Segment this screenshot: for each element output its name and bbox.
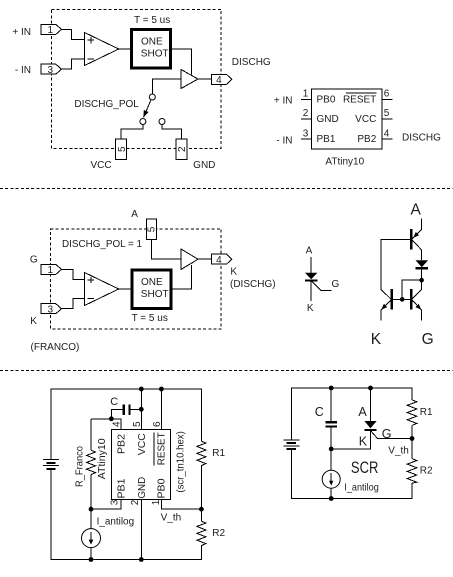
transistor Q3 base bar	[410, 289, 412, 309]
wire pin1 to comparator	[62, 29, 85, 39]
buffer U6	[181, 249, 198, 270]
svg-text:(scr_tn10.hex): (scr_tn10.hex)	[175, 431, 186, 492]
svg-text:4: 4	[384, 128, 390, 139]
wire switch to pin2	[162, 125, 182, 140]
svg-text:3: 3	[48, 65, 54, 76]
wire top rail (bottom-left circuit)	[51, 389, 201, 459]
diode D1	[416, 260, 429, 267]
svg-text:SHOT: SHOT	[141, 289, 169, 300]
svg-text:PB0: PB0	[317, 94, 336, 105]
svg-text:(DISCHG): (DISCHG)	[230, 279, 276, 290]
dashed block boundary (middle circuit)	[51, 229, 222, 329]
transistor Q2 emitter	[381, 300, 391, 320]
wire Q1 base to Q2 collector	[381, 239, 410, 289]
one-shot block U2	[132, 30, 171, 68]
wire Q1 collector to diode	[412, 240, 421, 260]
pin 3	[41, 64, 62, 74]
wire diode to Q3 collector	[421, 269, 423, 290]
wire C left	[111, 409, 122, 419]
node junction dot	[419, 278, 424, 283]
wire pin3 to comparator	[62, 59, 85, 69]
svg-text:ATtiny10: ATtiny10	[97, 438, 108, 479]
resistor R1	[407, 400, 417, 426]
svg-text:VCC: VCC	[137, 433, 148, 455]
buffer U3	[181, 70, 198, 89]
svg-text:K: K	[307, 303, 314, 314]
wire gate	[311, 281, 331, 290]
SCR thyristor symbol	[305, 273, 317, 280]
svg-text:1: 1	[48, 265, 54, 276]
svg-text:T = 5 us: T = 5 us	[132, 313, 168, 324]
wire cathode	[310, 282, 312, 301]
wire one-shot to buffer	[171, 265, 192, 289]
svg-text:G: G	[332, 279, 340, 290]
wire pin 3	[91, 499, 121, 509]
svg-text:V_th: V_th	[161, 512, 182, 523]
pin 3 stub	[301, 138, 312, 140]
wire RESET pin 6 from rail	[160, 389, 162, 430]
svg-text:DISCHG: DISCHG	[232, 57, 271, 68]
svg-text:C: C	[110, 396, 118, 408]
svg-text:K: K	[371, 331, 382, 348]
svg-text:K: K	[230, 267, 237, 278]
SCR thyristor	[370, 388, 372, 421]
svg-text:2: 2	[303, 108, 309, 119]
transistor Q1 emitter arrow (PNP)	[413, 232, 419, 238]
svg-text:DISCHG_POL = 1: DISCHG_POL = 1	[62, 239, 142, 250]
resistor R2	[197, 521, 206, 545]
dashed block boundary (top circuit)	[52, 9, 222, 148]
transistor Q2 collector	[381, 289, 391, 299]
transistor Q2 base bar	[391, 289, 393, 309]
svg-text:T = 5 us: T = 5 us	[134, 15, 170, 26]
svg-text:SCR: SCR	[351, 459, 379, 477]
battery V2	[283, 439, 299, 441]
svg-text:A: A	[411, 201, 422, 218]
svg-text:6: 6	[384, 89, 390, 100]
pin 4	[211, 74, 232, 84]
wire one-shot to buffer	[172, 49, 192, 75]
pin 3	[41, 304, 62, 314]
wire buffer input from switch	[152, 79, 181, 94]
node dots on top rail	[329, 386, 334, 391]
wire buffer to pin4	[198, 78, 211, 80]
op-amp comparator U1	[85, 33, 119, 66]
wire buffer to pin4	[198, 258, 211, 260]
wire pin1 to comparator	[62, 269, 85, 279]
svg-text:PB0: PB0	[157, 478, 168, 498]
wire bottom rail (bottom-right circuit)	[291, 449, 412, 498]
svg-text:3: 3	[303, 128, 309, 139]
svg-text:ONE: ONE	[141, 36, 163, 47]
svg-text:+ IN: + IN	[274, 96, 293, 107]
separator line 1	[0, 188, 453, 190]
transistor Q1 base bar	[410, 229, 412, 249]
svg-text:GND: GND	[317, 114, 339, 125]
svg-text:3: 3	[109, 499, 120, 505]
pin 2	[176, 139, 187, 159]
svg-text:DISCHG: DISCHG	[402, 133, 441, 144]
wire comparator to one-shot	[119, 288, 132, 290]
svg-text:R_Franco: R_Franco	[74, 446, 85, 487]
svg-text:1: 1	[303, 89, 309, 100]
svg-text:VCC: VCC	[355, 114, 376, 125]
pin 2 stub	[301, 118, 312, 120]
current source I_antilog	[82, 529, 101, 548]
wire C node to current source	[330, 449, 332, 470]
resistor R_Franco	[90, 419, 92, 450]
svg-text:VCC: VCC	[90, 160, 111, 171]
svg-text:K: K	[30, 316, 37, 327]
svg-text:GND: GND	[137, 477, 148, 499]
wire current source to rail	[90, 548, 92, 560]
node base junction dot	[400, 297, 405, 302]
svg-text:V_th: V_th	[388, 445, 409, 456]
svg-text:K: K	[359, 434, 368, 448]
svg-text:RESET: RESET	[343, 94, 376, 105]
wire current source to rail	[330, 488, 332, 498]
svg-text:A: A	[131, 209, 138, 220]
separator line 2	[0, 370, 453, 372]
wire pin3 to comparator	[62, 298, 85, 308]
wire between bases	[393, 298, 410, 300]
transistor Q3 emitter	[412, 300, 421, 320]
svg-text:4: 4	[216, 255, 222, 266]
resistor R1	[197, 441, 206, 465]
svg-text:G: G	[422, 331, 434, 348]
svg-text:PB2: PB2	[117, 434, 128, 454]
pin 6 stub	[382, 98, 393, 100]
pin 5 stub	[382, 118, 393, 120]
node V_th dot	[199, 507, 204, 512]
svg-text:4: 4	[216, 75, 222, 86]
svg-text:R1: R1	[420, 407, 433, 418]
wire bottom rail (bottom-left circuit)	[51, 470, 201, 560]
svg-text:- IN: - IN	[276, 136, 292, 147]
wire to current source	[90, 509, 92, 528]
svg-text:1: 1	[151, 499, 162, 505]
wire emitter Q1	[412, 219, 421, 239]
svg-text:PB1: PB1	[317, 134, 336, 145]
wire pin5 to buffer input	[151, 240, 181, 259]
svg-text:R1: R1	[212, 448, 225, 459]
svg-text:ATtiny10: ATtiny10	[325, 156, 364, 167]
pin 1 stub	[301, 98, 312, 100]
svg-text:3: 3	[48, 304, 54, 315]
svg-text:C: C	[315, 405, 324, 419]
svg-text:1: 1	[48, 25, 54, 36]
wire R1 to R2	[200, 466, 202, 522]
pin 1	[41, 24, 62, 34]
svg-text:ONE: ONE	[141, 277, 163, 288]
node PB1 junction dot	[89, 507, 94, 512]
svg-text:A: A	[306, 246, 313, 257]
wire top rail (bottom-right circuit)	[291, 388, 412, 440]
pin 1	[41, 264, 62, 274]
svg-text:R2: R2	[420, 465, 433, 476]
op-amp comparator U4	[85, 273, 119, 306]
wire C right	[131, 408, 142, 410]
svg-text:(FRANCO): (FRANCO)	[31, 342, 80, 353]
svg-text:I_antilog: I_antilog	[97, 516, 135, 527]
wire cathode to C node	[331, 431, 370, 449]
wire PB0 pin 1 to V_th	[161, 499, 201, 509]
svg-text:2: 2	[177, 146, 188, 152]
resistor R2	[407, 459, 417, 484]
svg-text:A: A	[358, 405, 367, 419]
svg-text:SHOT: SHOT	[141, 49, 169, 60]
wire node to bases	[402, 280, 421, 299]
switch DISCHG_POL	[149, 94, 155, 100]
one-shot block U5	[132, 270, 171, 309]
current source I_antilog	[322, 470, 340, 488]
svg-text:PB2: PB2	[357, 134, 376, 145]
svg-text:DISCHG_POL: DISCHG_POL	[74, 99, 139, 110]
pin 5	[116, 139, 127, 159]
svg-text:+ IN: + IN	[12, 27, 31, 38]
node V_th dot	[410, 436, 415, 441]
wire R1 to R2	[411, 425, 413, 458]
IC ATtiny10 (R_Franco)	[112, 430, 171, 500]
battery V1	[43, 459, 59, 461]
wire switch to pin5	[121, 125, 143, 140]
wire GND pin 2 to rail	[140, 499, 142, 559]
svg-text:RESET: RESET	[157, 432, 168, 465]
wire VCC pin 5 from rail	[140, 389, 142, 430]
pin 4 stub	[382, 138, 393, 140]
pin 5	[146, 219, 156, 240]
wire comparator to one-shot	[119, 48, 131, 50]
pin 4	[211, 254, 232, 264]
svg-text:G: G	[382, 427, 392, 441]
wire pin 4 node	[91, 419, 121, 430]
svg-text:I_antilog: I_antilog	[344, 482, 379, 493]
svg-text:5: 5	[147, 226, 158, 232]
wire gate to V_th	[371, 431, 412, 439]
IC ATtiny10 pinout	[311, 89, 381, 149]
svg-text:5: 5	[117, 146, 128, 152]
svg-text:- IN: - IN	[15, 65, 31, 76]
wire anode	[310, 257, 312, 273]
svg-text:PB1: PB1	[117, 478, 128, 498]
svg-text:5: 5	[384, 108, 390, 119]
svg-text:GND: GND	[193, 160, 215, 171]
svg-text:2: 2	[130, 499, 141, 505]
svg-text:R2: R2	[212, 528, 225, 539]
transistor Q3 collector	[412, 290, 421, 299]
svg-text:G: G	[30, 255, 38, 266]
